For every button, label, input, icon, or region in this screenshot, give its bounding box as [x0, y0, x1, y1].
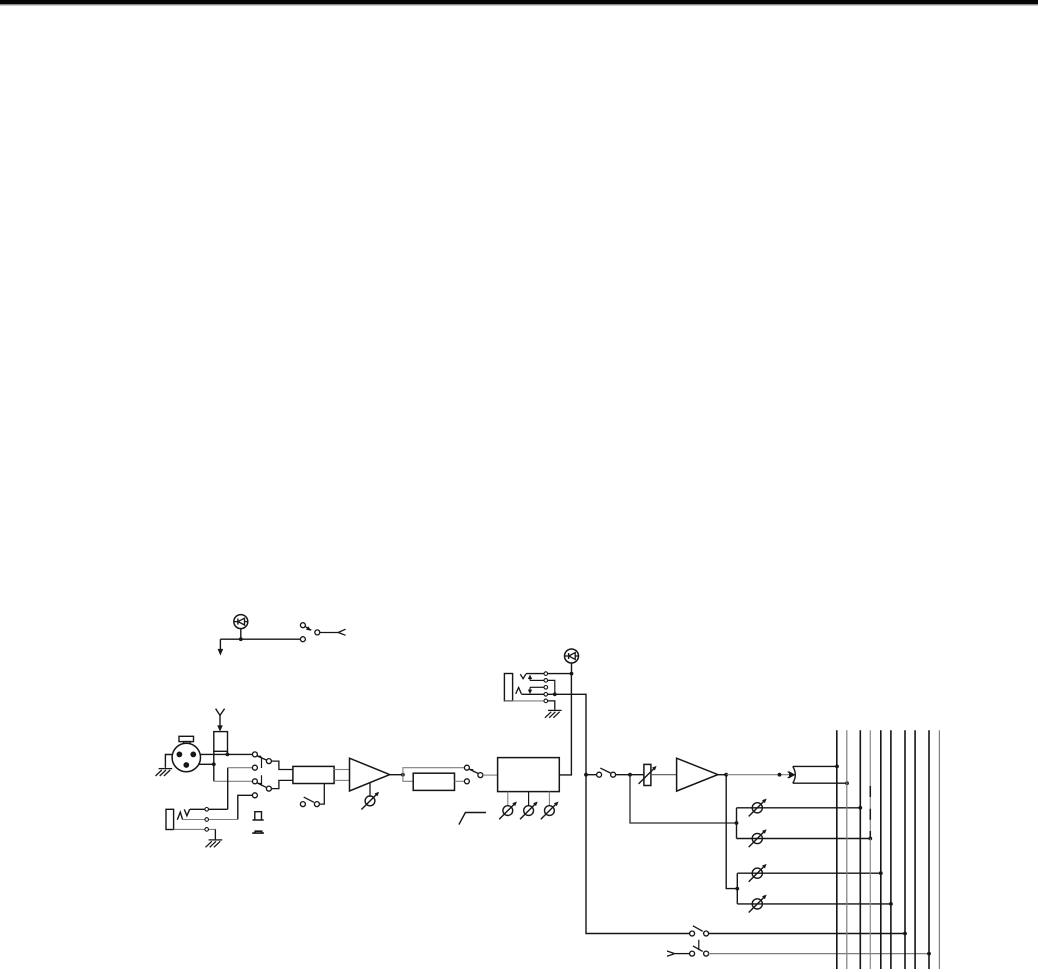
junction — [835, 765, 839, 769]
LED D1 (+48V indicator) — [234, 615, 248, 629]
junction — [401, 773, 405, 777]
wire pan L to bus1 — [793, 765, 837, 767]
switch S5 arm — [600, 768, 610, 773]
switch S2 mechanical link — [261, 758, 263, 784]
arrow into pan — [789, 771, 795, 778]
bus line 6 — [890, 730, 892, 969]
wire XLR shell to ground — [165, 755, 172, 768]
wire J2 contact2 to contact4 — [548, 680, 555, 694]
wire J2 contact3 — [530, 686, 546, 688]
switch S7 pole — [704, 951, 709, 956]
LED D2 peak indicator — [565, 649, 579, 663]
HPF pictogram — [459, 813, 486, 825]
switch S4 pole — [478, 773, 483, 778]
wire row2 from line jack tip — [227, 768, 229, 810]
junction — [927, 952, 931, 956]
junction — [778, 773, 782, 777]
ground — [206, 840, 223, 847]
junction — [735, 887, 739, 891]
switch S2 arm lower — [257, 783, 267, 788]
wire aux pre feed riser — [736, 808, 738, 839]
junction — [570, 672, 574, 676]
wire to pan — [726, 774, 790, 776]
switch S5 channel ON contact — [597, 772, 602, 777]
wire EQ out up to insert send — [559, 674, 571, 775]
block EQ — [498, 758, 560, 792]
wire R1 right leg — [226, 751, 228, 754]
junction — [239, 637, 243, 641]
junction — [879, 871, 883, 875]
switch S4 arm — [469, 769, 478, 773]
bus line 4 — [869, 730, 871, 969]
junction — [212, 762, 216, 766]
wire AUX1 row — [737, 807, 861, 809]
wire insert-return rail down to S6 — [586, 775, 690, 934]
wire D1 cathode stem — [240, 629, 242, 640]
wire R1 left leg — [213, 751, 215, 781]
potentiometer VR3 EQ MID — [520, 802, 538, 820]
wire J2 send (tip) — [526, 673, 572, 675]
potentiometer VR2 EQ HIGH — [499, 802, 517, 820]
wire J1 tip — [190, 808, 228, 810]
J2 terminal 3 — [544, 686, 548, 690]
J2 terminal 2 — [544, 679, 548, 683]
wire EQ knob stem 2 — [528, 792, 530, 806]
connector J2 INSERT jack body — [504, 674, 512, 701]
off-page connector (phantom master) — [338, 629, 345, 635]
wire HPF out — [455, 780, 465, 782]
switch S2 arm upper — [257, 756, 267, 760]
off-page connector (sub in) — [667, 951, 675, 956]
switch S2 PAD contact row1 — [252, 752, 257, 757]
bus line 5 — [880, 730, 882, 969]
pad pictogram 0dB — [253, 812, 264, 820]
J1 ring spring — [177, 812, 182, 820]
connector XLR MIC INPUT — [172, 736, 200, 771]
junction — [226, 753, 230, 757]
J2 send spring — [520, 674, 526, 679]
junction — [903, 932, 907, 936]
wire GAIN to U1 (cold) — [334, 779, 349, 781]
switch S6 pole — [704, 931, 709, 936]
wire AUX3 row — [737, 872, 881, 874]
J2 terminal 4 — [544, 693, 548, 697]
potentiometer VR8 AUX3 — [749, 864, 767, 882]
wire EQ knob stem 3 — [548, 792, 550, 806]
switch S2 pole lower — [266, 786, 271, 791]
block HPF — [413, 773, 454, 790]
wire GAIN to U1 (hot) — [334, 769, 349, 771]
wire XLR pin3 cold — [199, 763, 214, 765]
wire EQ knob stem 1 — [507, 792, 509, 806]
junction — [858, 806, 862, 810]
J2 terminal 1 — [544, 672, 548, 676]
switch S3 (gain range) contact — [300, 802, 305, 807]
junction — [628, 773, 632, 777]
potentiometer VR1 GAIN — [369, 783, 371, 796]
arrow to +48V source — [219, 639, 221, 650]
bus line 3 — [859, 730, 861, 969]
ground — [545, 710, 562, 717]
wire S2 pole lower to GAIN — [271, 780, 293, 788]
switch S3 pole — [314, 802, 319, 807]
junction — [868, 837, 872, 841]
wire S1 to connector — [320, 632, 338, 634]
junction — [553, 692, 557, 696]
switch S1 (+48V ON) contact — [300, 623, 305, 628]
bus line 2 — [846, 730, 848, 969]
bus line 4 dashes — [869, 786, 871, 838]
switch S7 arm — [693, 946, 703, 952]
bus line 1 — [836, 730, 838, 969]
wire fader to U2 — [651, 774, 677, 776]
wire S2 pole upper to GAIN — [271, 761, 293, 769]
J2 terminal 5 — [544, 699, 548, 703]
switch S6 assign contact — [690, 931, 695, 936]
op-amp U1 head amp — [350, 758, 390, 791]
wire connector to S7 — [675, 953, 690, 955]
switch S7 assign contact — [690, 951, 695, 956]
pad pictogram -26dB — [252, 831, 264, 833]
J1 sleeve terminal — [205, 828, 209, 832]
switch S6 arm — [693, 926, 703, 932]
wire +48V rail — [220, 638, 300, 640]
switch S1 pole — [315, 630, 320, 635]
wire J2 return (ring) — [521, 694, 586, 774]
wire pre-fader tap — [630, 775, 737, 823]
pan pot PAN — [793, 766, 796, 783]
block GAIN pad network — [293, 766, 334, 783]
node rail terminal — [300, 637, 305, 642]
wire pan R to bus2 — [793, 782, 847, 784]
switch link S6-S7 — [698, 940, 700, 951]
switch S4 contact bypass — [464, 765, 469, 770]
wire AUX4 row — [737, 903, 891, 905]
wire J1 sleeve — [174, 829, 216, 839]
connector J1 LINE INPUT jack body — [166, 809, 174, 829]
header bar — [0, 0, 1038, 4]
J2 normal arrow upper — [529, 678, 531, 681]
potentiometer VR7 AUX2 — [749, 829, 767, 847]
switch S3 arm — [304, 797, 314, 802]
wire main to S5 — [586, 774, 597, 776]
wire into HPF — [403, 775, 413, 782]
wire post-fader tap — [726, 775, 737, 889]
J2 return spring — [516, 688, 522, 694]
wire S3 to GAIN block — [319, 784, 324, 805]
switch S2 contact row3 — [252, 779, 257, 784]
wire aux post feed riser — [736, 873, 738, 904]
J1 tip spring — [184, 809, 189, 815]
bus line 10 — [938, 730, 940, 969]
wire row3 from phantom leg — [214, 780, 253, 782]
bus line 7 — [904, 730, 906, 969]
wire row4 to line jack ring — [238, 795, 253, 819]
junction — [889, 902, 893, 906]
bus line 9 — [928, 730, 930, 969]
ground — [156, 769, 173, 776]
junction — [735, 821, 739, 825]
wire S7 to bus9 — [708, 953, 929, 955]
fader VR5 channel level — [644, 764, 651, 785]
potentiometer VR4 EQ LOW — [541, 802, 559, 820]
J1 tip terminal — [205, 808, 209, 812]
wire AUX2 row — [737, 838, 871, 840]
switch S2 contact row4 — [252, 793, 257, 798]
wire HPF bypass — [403, 768, 465, 775]
wire J2 sleeve — [504, 701, 554, 710]
junction — [845, 781, 849, 785]
J2 normal arrow lower — [529, 687, 531, 690]
resistor R1 (phantom feed) — [214, 732, 228, 752]
wire S6 to bus7 — [708, 933, 905, 935]
arrow +48V feed into R1 — [216, 709, 225, 716]
junction — [584, 773, 588, 777]
wire D2 stem — [571, 663, 573, 674]
wire U1 out — [390, 774, 403, 776]
switch S5 pole — [611, 772, 616, 777]
op-amp U2 channel amp — [677, 758, 718, 791]
junction — [724, 773, 728, 777]
wire J2 contact2 — [530, 679, 546, 681]
wire S4 to EQ — [483, 774, 498, 776]
switch S2 pole upper — [266, 759, 271, 764]
potentiometer VR6 AUX1 — [749, 799, 767, 817]
switch S2 contact row2 — [252, 765, 257, 770]
bus line 8 — [914, 730, 916, 969]
switch S4 contact filtered — [464, 779, 469, 784]
switch S1 arm — [305, 627, 311, 631]
wire J1 ring — [183, 819, 238, 821]
potentiometer VR9 AUX4 — [749, 895, 767, 913]
wire XLR pin2 hot (row1) — [200, 753, 252, 755]
J1 ring terminal — [205, 818, 209, 822]
wire U2 out — [718, 774, 726, 776]
wire S5 to fader — [615, 774, 644, 776]
